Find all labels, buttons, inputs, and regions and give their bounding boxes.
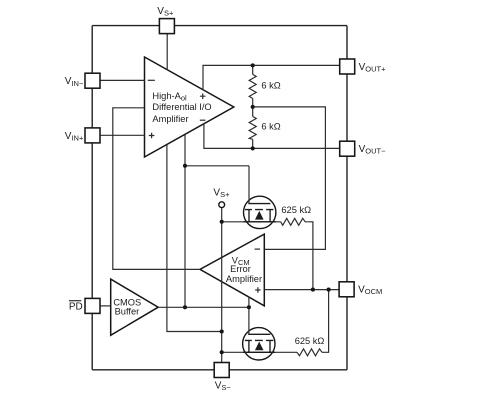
svg-text:PD: PD [69, 302, 83, 313]
op-amp U2 VCM Error Amplifier [200, 234, 264, 306]
wire VIN- pin to main amp inverting input [100, 79, 145, 81]
resistor R3 625 kOhm [281, 218, 308, 225]
junction main amp supply to rail [220, 329, 224, 333]
svg-text:VS+: VS+ [157, 6, 174, 18]
wire upper FET gate [185, 165, 249, 167]
transistor Q1 internals [244, 204, 276, 222]
pin VIN- [85, 73, 100, 88]
label error amp non-inverting input [255, 287, 260, 292]
junction R3 to VOCM net [311, 288, 315, 292]
wire 6k divider chain vertical [252, 65, 254, 148]
junction buffer output to Q2 gate [247, 305, 251, 309]
wire upper FET source-drain through 625k [222, 222, 313, 290]
wire top border [92, 25, 347, 27]
wire PD pin to CMOS buffer input [100, 305, 111, 307]
supply VS+ internal rail [221, 208, 223, 363]
junction VS+ rail to Q1 [220, 220, 224, 224]
op-amp U1 High-Aol Differential I/O Amplifier [145, 57, 234, 157]
resistor R4 625 kOhm [297, 349, 322, 356]
svg-text:Differential I/O: Differential I/O [152, 102, 211, 112]
wire main amp bottom to VS- rail [167, 145, 222, 332]
junction bottom of 6k chain [251, 146, 255, 150]
wire main amp output- to VOUT- rail [204, 124, 340, 148]
svg-text:VOCM: VOCM [358, 285, 382, 297]
svg-text:6 kΩ: 6 kΩ [261, 121, 280, 131]
svg-text:VOUT−: VOUT− [359, 144, 387, 156]
svg-text:625 kΩ: 625 kΩ [295, 336, 325, 346]
junction VOCM net to R4 branch [327, 288, 331, 292]
svg-text:Amplifier: Amplifier [226, 274, 262, 284]
transistor Q2 internals [243, 334, 275, 352]
svg-text:VS+: VS+ [213, 187, 230, 199]
wire VCM error amp output to main amp CM input [113, 108, 200, 270]
svg-text:Amplifier: Amplifier [152, 114, 188, 124]
transistor Q1 gate wire [248, 166, 250, 204]
wire 6k midpoint to error amp inverting input [253, 107, 326, 250]
junction rail to Q2 source [220, 350, 224, 354]
junction gate tap on PD net [183, 164, 187, 168]
svg-text:Error: Error [230, 264, 251, 274]
label error amp inverting input [255, 248, 260, 250]
wire VS+ pin to main amp top edge [166, 33, 168, 71]
svg-text:VIN+: VIN+ [65, 131, 84, 143]
transistor Q1 body [244, 196, 276, 228]
pin VOUT- [340, 141, 355, 156]
label main amp non-inverting input [149, 133, 155, 139]
svg-text:High-Aol: High-Aol [152, 91, 187, 103]
svg-text:VOUT+: VOUT+ [359, 62, 387, 74]
buffer U3 CMOS Buffer [111, 279, 159, 335]
junction buffer output to PD net [183, 305, 187, 309]
wire error amp + input to VOCM pin [264, 289, 339, 291]
wire VIN+ pin to main amp non-inverting input [100, 134, 145, 136]
node VS+ internal supply terminal [219, 202, 225, 208]
pin VIN+ [85, 128, 100, 143]
wire VOCM net down to lower 625k [322, 290, 329, 353]
wire left border [91, 26, 93, 370]
junction 6k midpoint [251, 105, 255, 109]
pin VS- [214, 363, 229, 378]
label main amp output- [200, 119, 206, 121]
svg-text:Buffer: Buffer [115, 306, 140, 316]
pin VOUT+ [340, 59, 355, 74]
wire lower FET drain to resistor R4 [242, 351, 297, 353]
transistor Q2 body [243, 328, 275, 360]
label main amp inverting input [148, 79, 155, 81]
resistor R2 6 kOhm [249, 117, 256, 140]
pin VOCM [339, 282, 354, 297]
wire lower FET source to VS- rail [222, 351, 243, 353]
pin VS+ [159, 19, 174, 34]
label main amp output+ [200, 93, 206, 99]
svg-text:VIN−: VIN− [65, 76, 84, 88]
svg-text:625 kΩ: 625 kΩ [281, 205, 311, 215]
wire CMOS buffer output [158, 306, 249, 308]
svg-text:VS−: VS− [215, 381, 232, 393]
junction top of 6k chain [251, 63, 255, 67]
resistor R1 6 kOhm [249, 74, 256, 98]
wire main amp bottom PD net vertical [184, 135, 186, 308]
wire bottom border [92, 369, 347, 371]
transistor Q2 gate wire [248, 297, 250, 335]
pin PD [85, 298, 100, 313]
wire right border [346, 26, 348, 370]
svg-text:6 kΩ: 6 kΩ [261, 80, 280, 90]
wire main amp output+ to VOUT+ rail [203, 65, 340, 90]
